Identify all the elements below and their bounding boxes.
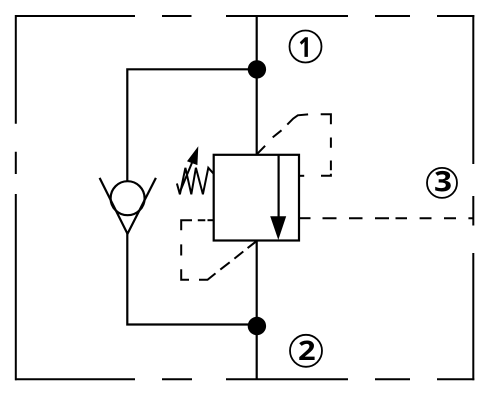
- junction dot lower: [248, 317, 266, 335]
- spring: [177, 168, 214, 195]
- wire: left branch top (horizontal then down to check valve): [127, 69, 256, 181]
- enclosure boundary right edge: [472, 15, 474, 380]
- pilot line to port 3: [323, 217, 474, 219]
- junction dot upper: [248, 60, 266, 78]
- adjustment arrow shaft: [180, 161, 193, 192]
- wire: port 1 vertical line down to valve: [256, 16, 258, 155]
- port label 2 digit: [299, 341, 314, 361]
- port label 1 circle: [290, 31, 322, 63]
- wire: valve bottom to port 2: [256, 241, 258, 380]
- enclosure boundary top edge: [15, 15, 474, 17]
- port label 2 circle: [290, 335, 322, 367]
- pilot stub on valve right lower: [299, 217, 311, 219]
- enclosure boundary left edge: [15, 15, 17, 380]
- flow arrow line inside valve: [278, 155, 280, 219]
- enclosure boundary bottom edge: [15, 378, 474, 380]
- flow arrowhead: [270, 216, 286, 240]
- pilot line: bottom dashed loop from valve left to valve bottom: [181, 220, 256, 280]
- adjustment arrowhead: [187, 146, 198, 165]
- port label 3 digit: [435, 171, 451, 192]
- relief valve body: [214, 155, 299, 241]
- pilot line: top dashed loop from valve top to right side: [257, 114, 331, 176]
- pilot stub on valve left lower: [208, 219, 214, 221]
- port label 3 circle: [427, 168, 457, 198]
- pilot stub on valve right upper: [299, 175, 304, 177]
- port label 1 digit: [300, 37, 308, 57]
- check valve ball: [111, 181, 145, 215]
- check valve seat: [100, 178, 156, 234]
- wire: left branch bottom (down from seat then right): [127, 233, 256, 325]
